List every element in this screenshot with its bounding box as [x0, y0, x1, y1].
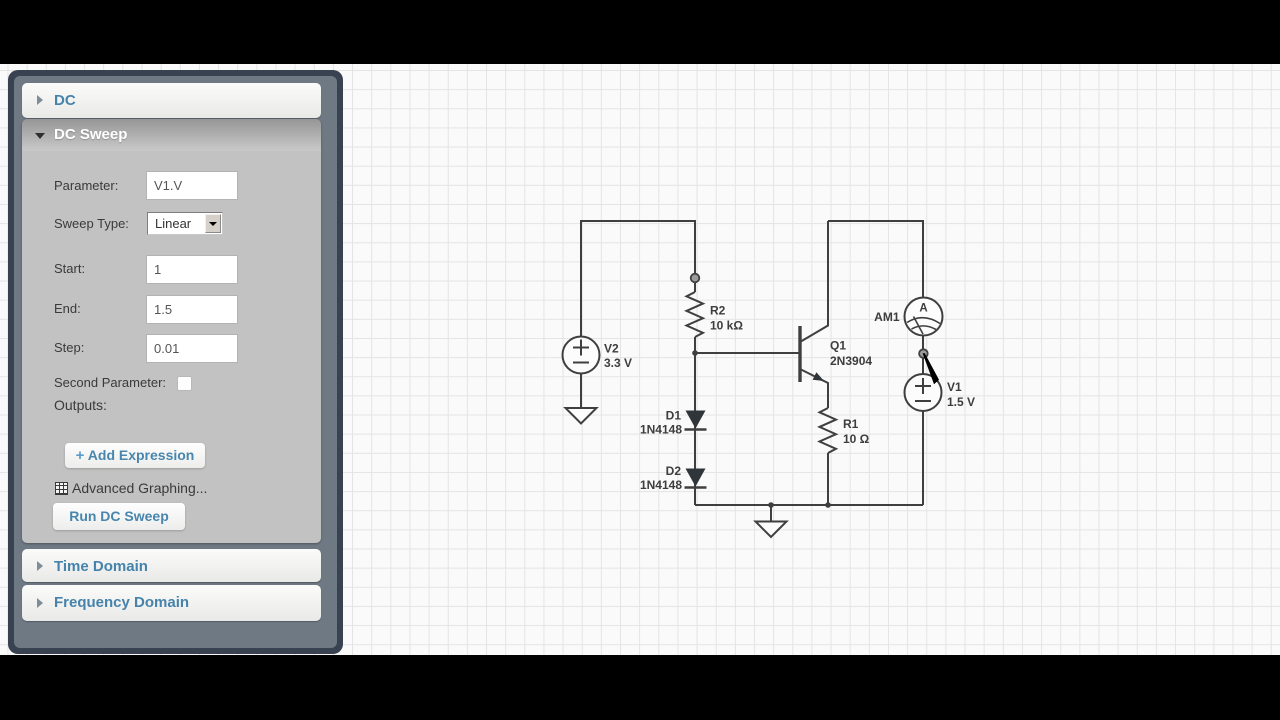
junction dot (Q1 base node): [692, 350, 698, 356]
label R2 value: [710, 304, 743, 333]
svg-text:D1: D1: [666, 409, 682, 423]
Time Domain header: [22, 549, 321, 582]
svg-text:3.3 V: 3.3 V: [604, 356, 632, 370]
wire ground stub bottom: [770, 505, 772, 521]
DC header: [22, 83, 321, 118]
svg-text:Q1: Q1: [830, 339, 846, 353]
svg-text:R1: R1: [843, 417, 859, 431]
resistor R2: [687, 292, 704, 337]
ground (bottom center): [756, 522, 787, 538]
wire V1 bottom: [922, 411, 924, 505]
svg-text:V1: V1: [947, 380, 962, 394]
resistor R1: [820, 408, 837, 505]
svg-text:V2: V2: [604, 342, 619, 356]
svg-text:1.5 V: 1.5 V: [947, 395, 975, 409]
label V1 value: [947, 380, 975, 409]
wire Q1 collector top rail to AM1: [828, 221, 923, 298]
voltage source V2: [563, 337, 600, 374]
svg-text:10 kΩ: 10 kΩ: [710, 319, 743, 333]
label AM1: [874, 310, 900, 324]
node dot (R2 top): [691, 274, 700, 283]
ammeter AM1: [905, 298, 943, 336]
label V2 value: [604, 342, 632, 371]
simulation side panel: [8, 70, 343, 654]
diode D1: [685, 411, 707, 430]
transistor Q1: [800, 221, 828, 408]
svg-text:10 Ω: 10 Ω: [843, 432, 870, 446]
wire V2 to ground: [580, 373, 582, 408]
wire V2 top rail to R2: [581, 221, 695, 337]
DC Sweep expanded section: [22, 119, 321, 543]
voltage source V1: [905, 374, 942, 411]
label Q1 value: [830, 339, 872, 369]
wire AM1 to V1: [922, 335, 924, 375]
junction dot (R1 bottom node): [825, 502, 831, 508]
label ammeter A: [919, 303, 927, 315]
node dot (probe node between AM1 and V1): [919, 349, 928, 358]
ground (below V2): [566, 408, 597, 424]
junction dot (ground node): [768, 502, 774, 508]
wire R2 bottom through diodes to bottom rail: [694, 337, 696, 505]
wire bottom rail: [695, 504, 923, 506]
svg-text:D2: D2: [666, 464, 682, 478]
label D1 value: [640, 409, 682, 437]
label D2 value: [640, 464, 682, 492]
svg-text:AM1: AM1: [874, 310, 900, 324]
Frequency Domain header: [22, 585, 321, 621]
label R1 value: [843, 417, 870, 446]
svg-text:1N4148: 1N4148: [640, 478, 682, 492]
svg-text:A: A: [919, 303, 927, 315]
svg-text:2N3904: 2N3904: [830, 354, 872, 368]
diode D2: [685, 469, 707, 488]
svg-text:1N4148: 1N4148: [640, 423, 682, 437]
mouse cursor: [923, 353, 939, 384]
wire base of Q1: [695, 352, 799, 354]
svg-text:R2: R2: [710, 304, 726, 318]
